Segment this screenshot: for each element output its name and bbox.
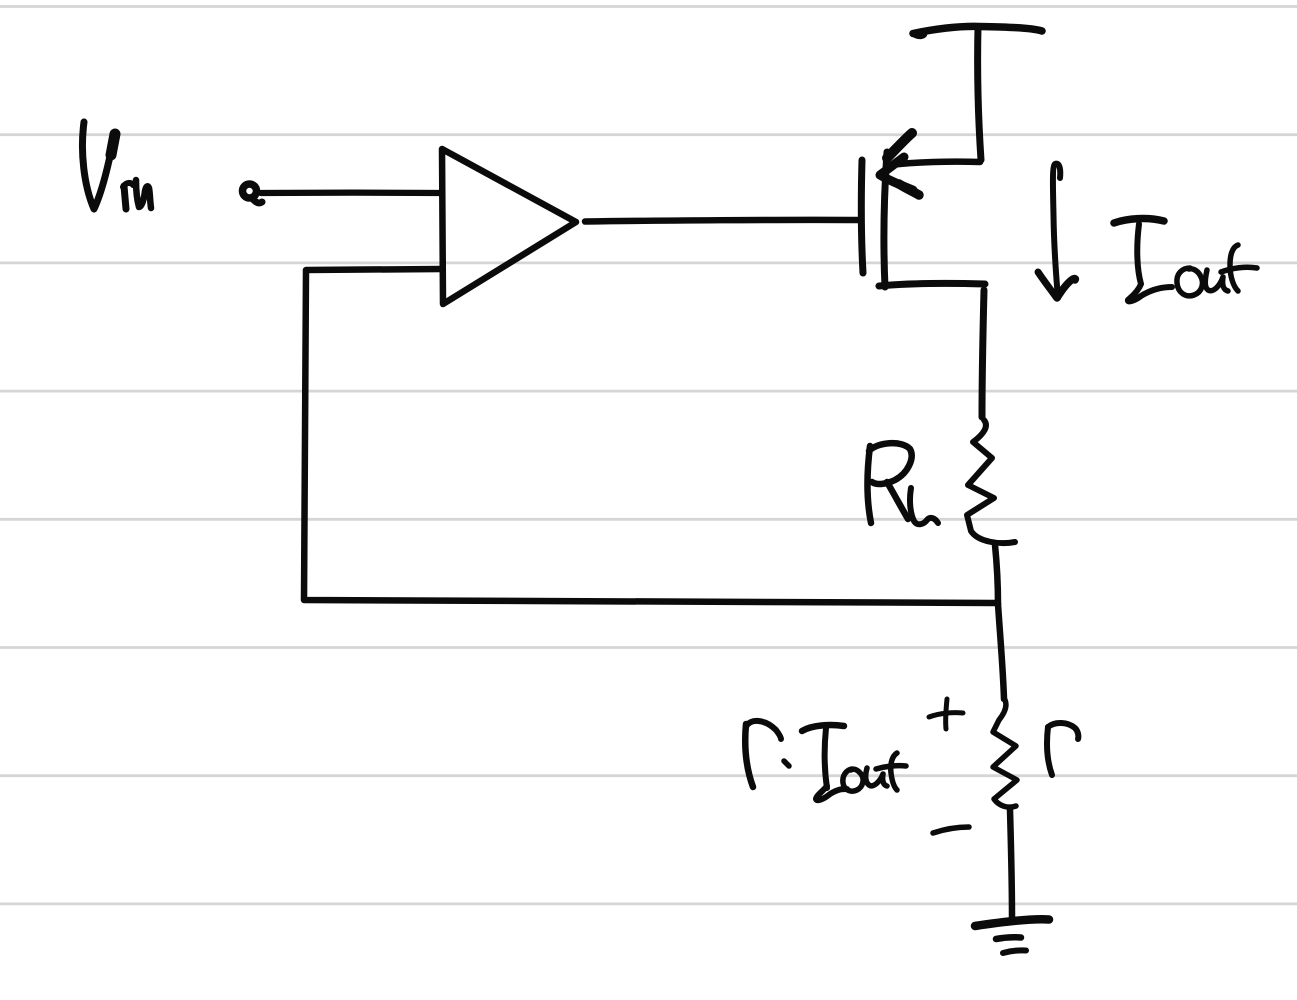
wire feedback xyxy=(304,269,995,603)
wire node to resistor r xyxy=(998,604,1004,699)
op-amp U1 xyxy=(442,149,576,304)
net label Vin xyxy=(82,122,151,209)
resistor r xyxy=(993,700,1017,807)
label minus xyxy=(933,827,969,833)
current arrow Iout xyxy=(1038,164,1075,298)
power supply rail xyxy=(913,26,1042,160)
ground xyxy=(975,919,1049,953)
label plus xyxy=(929,699,963,729)
resistor RL xyxy=(967,420,1015,543)
transistor M1 channel bar xyxy=(884,152,887,287)
transistor M1 drain wire xyxy=(879,283,985,286)
wire drain to RL xyxy=(982,290,984,417)
wire RL bottom to node xyxy=(995,545,998,604)
transistor M1 source wire xyxy=(890,162,980,165)
transistor M1 source arrow xyxy=(880,133,919,195)
label r·Iout xyxy=(745,721,906,800)
wire r to ground xyxy=(1010,810,1012,918)
label r value xyxy=(1047,723,1078,775)
label Iout xyxy=(1114,219,1257,302)
wire op-amp output to gate xyxy=(585,220,858,222)
transistor M1 (PMOS) gate bar xyxy=(861,160,863,273)
wire Vin to op-amp input xyxy=(261,189,441,196)
label RL xyxy=(868,443,939,524)
input terminal node xyxy=(243,184,263,203)
